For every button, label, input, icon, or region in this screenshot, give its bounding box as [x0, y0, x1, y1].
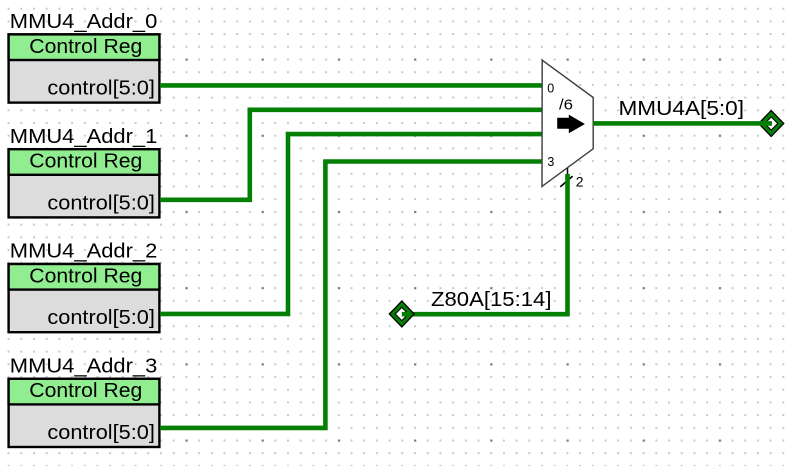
svg-text:MMU4_Addr_2: MMU4_Addr_2 — [10, 240, 158, 263]
register MMU4_Addr_3 (Control Reg) — [9, 379, 160, 447]
multiplexer U1 body — [542, 60, 593, 186]
svg-text:0: 0 — [547, 81, 554, 95]
svg-text:/6: /6 — [559, 97, 573, 114]
register MMU4_Addr_2 (Control Reg) — [9, 264, 160, 332]
svg-text:Z80A[15:14]: Z80A[15:14] — [431, 288, 552, 311]
svg-text:MMU4_Addr_3: MMU4_Addr_3 — [10, 354, 158, 377]
svg-text:MMU4_Addr_1: MMU4_Addr_1 — [10, 125, 158, 148]
output port MMU4A[5:0] diamond — [759, 111, 784, 137]
mux select pin stub — [567, 168, 569, 175]
wire mux output to port MMU4A — [593, 121, 772, 126]
wire control[5:0] MMU4_Addr_3 to mux pin 3 — [160, 162, 542, 428]
bus width slash on select wire — [560, 176, 572, 187]
register MMU4_Addr_1 (Control Reg) — [9, 149, 160, 217]
register MMU4_Addr_0 (Control Reg) — [9, 34, 160, 102]
wire control[5:0] MMU4_Addr_2 to mux pin 2 — [160, 134, 542, 314]
wire control[5:0] MMU4_Addr_1 to mux pin 1 — [160, 110, 542, 200]
wire select Z80A[15:14] to mux — [402, 174, 568, 314]
svg-text:3: 3 — [547, 155, 554, 169]
svg-text:2: 2 — [576, 174, 584, 190]
svg-text:MMU4A[5:0]: MMU4A[5:0] — [619, 97, 745, 120]
wire stub into Z80A port — [402, 312, 410, 317]
wire control[5:0] MMU4_Addr_0 to mux pin 0 — [160, 83, 542, 88]
mux arrow symbol — [557, 115, 585, 134]
svg-text:MMU4_Addr_0: MMU4_Addr_0 — [10, 10, 158, 33]
input port Z80A[15:14] diamond — [389, 301, 414, 327]
